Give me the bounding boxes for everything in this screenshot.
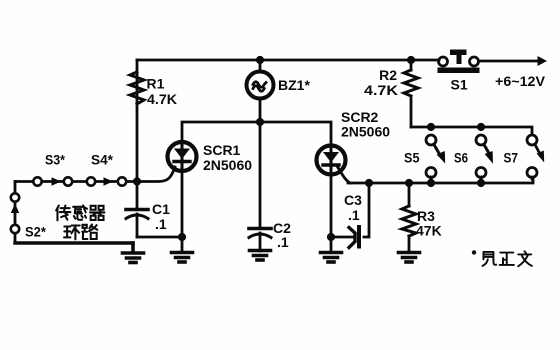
char gan	[73, 205, 87, 219]
node C1-cathode junction	[178, 233, 186, 241]
wire top supply rail	[137, 59, 439, 62]
svg-text:+6~12V: +6~12V	[495, 73, 546, 89]
switch S6	[476, 135, 486, 145]
switch S5	[426, 135, 436, 145]
wire C1 to cathode	[137, 236, 182, 239]
node S6 top junction	[477, 123, 485, 131]
svg-text:S5: S5	[404, 150, 420, 166]
wire arrow up	[11, 204, 19, 214]
wire BZ1 to C2	[259, 122, 262, 227]
ground C2	[250, 251, 271, 261]
resistor R2	[410, 60, 413, 70]
label sensor loop (Chinese)	[56, 205, 104, 239]
switch S2 contact b	[11, 225, 19, 233]
wire gate bus	[348, 179, 533, 183]
svg-text:S6: S6	[454, 150, 468, 166]
SCR U1 (SCR1)	[168, 142, 197, 171]
svg-text:R1: R1	[147, 76, 165, 92]
svg-text:4.7K: 4.7K	[364, 82, 398, 98]
resistor R3	[408, 183, 411, 206]
switch S3 contact a	[33, 177, 41, 185]
wire supply arrow	[479, 60, 539, 63]
svg-text:2N5060: 2N5060	[203, 157, 252, 173]
wire SCR2 gate	[337, 166, 350, 183]
node S6 bottom junction	[477, 179, 485, 187]
node C3 top junction	[365, 179, 373, 187]
node SCR2 cathode-C3 junction	[327, 233, 335, 241]
node R3 top junction	[405, 179, 413, 187]
char jian	[483, 252, 497, 266]
svg-text:S7: S7	[504, 150, 519, 166]
ground R3	[399, 253, 420, 263]
switch S3 contact b	[64, 177, 72, 185]
char huan	[64, 225, 80, 239]
switch S4 contact b	[118, 177, 126, 185]
svg-text:4.7K: 4.7K	[147, 91, 177, 107]
wire SCR1 cathode	[181, 170, 184, 251]
svg-text:S3*: S3*	[45, 152, 65, 168]
buzzer BZ1	[259, 60, 262, 71]
node sensor loop junction	[133, 177, 141, 185]
wire sensor loop bottom	[15, 241, 133, 244]
node S5 top junction	[427, 123, 435, 131]
switch S2 contact a	[11, 193, 19, 201]
svg-text:47K: 47K	[416, 223, 442, 239]
svg-text:2N5060: 2N5060	[341, 124, 390, 140]
resistor R1	[130, 72, 144, 104]
wire arrow right 2	[104, 177, 114, 185]
SCR U2 (SCR2)	[317, 146, 346, 175]
svg-text:.1: .1	[348, 207, 360, 223]
capacitor C2	[249, 227, 271, 231]
switch S4 contact a	[87, 177, 95, 185]
svg-text:SCR1: SCR1	[203, 142, 241, 158]
wire sensor loop top	[15, 180, 137, 183]
capacitor C3	[364, 183, 369, 237]
svg-text:.1: .1	[155, 216, 167, 232]
wire SCR1 gate	[137, 167, 175, 182]
char chuan	[56, 205, 70, 220]
wire sensor loop left	[14, 182, 17, 244]
char lu	[82, 224, 97, 239]
svg-text:C3: C3	[344, 192, 362, 208]
ground SCR2 cathode	[321, 253, 342, 263]
ground sensor loop	[123, 243, 144, 263]
wire switch top bus	[411, 127, 532, 134]
svg-text:S1: S1	[451, 77, 468, 93]
wire anode bus	[182, 122, 331, 146]
wire SCR2 cathode	[330, 174, 333, 251]
capacitor C1	[126, 208, 148, 212]
wire R1 branch vertical	[136, 60, 139, 182]
char wen	[518, 251, 532, 266]
node S5 bottom junction	[427, 179, 435, 187]
node anode-C2 junction	[256, 118, 264, 126]
ground SCR1 cathode	[172, 253, 193, 263]
svg-text:BZ1*: BZ1*	[278, 77, 310, 93]
node supply-BZ1 junction	[256, 56, 264, 64]
node supply-R2 junction	[407, 56, 415, 64]
char qi	[90, 206, 105, 220]
svg-text:S2*: S2*	[25, 224, 47, 240]
char zheng	[500, 253, 514, 265]
switch S7	[527, 135, 537, 145]
svg-text:C1: C1	[152, 201, 170, 217]
pushbutton S1	[439, 57, 448, 66]
svg-text:S4*: S4*	[91, 152, 114, 168]
svg-text:R2: R2	[379, 67, 397, 83]
wire arrow right 1	[52, 177, 62, 185]
label see text (Chinese)	[472, 250, 532, 266]
svg-text:.1: .1	[277, 234, 289, 250]
